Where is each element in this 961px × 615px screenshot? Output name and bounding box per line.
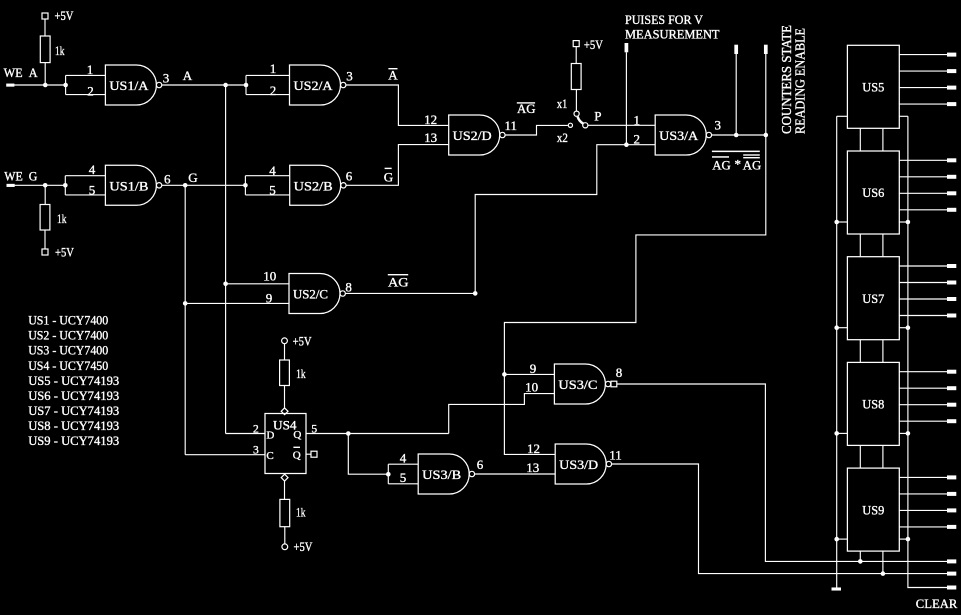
overbar of node Gbar (385, 168, 392, 169)
junction node A branch down (223, 83, 228, 88)
stub US9 to count line 1 (859, 551, 861, 561)
nand gate US3/B (418, 454, 474, 494)
wire +5V square to resistor R3 (575, 47, 577, 64)
borrow link b US8-US9 (882, 445, 884, 468)
junction right bus at US7 (906, 325, 911, 330)
wire Abar: US2/A out to US2/D pin 12 (346, 85, 449, 125)
wire node A vertical bus (225, 85, 227, 434)
counter US5 box (847, 45, 899, 128)
svg-text:CLEAR: CLEAR (916, 596, 958, 611)
wire US3/A output (712, 134, 766, 136)
right pin stub US9 (899, 538, 908, 540)
wire US2/C pin 9 (185, 302, 289, 304)
+5V terminal square (switch pull-up) (573, 41, 579, 47)
svg-text:13: 13 (526, 460, 539, 475)
diamond bubble US4 preset pin (281, 408, 288, 415)
junction count line 1 / US9 stub (858, 559, 863, 564)
junction US2/C out to pin2 net (473, 291, 478, 296)
terminal count line 1 (947, 559, 956, 563)
svg-text:2: 2 (270, 83, 277, 98)
svg-text:1k: 1k (55, 43, 65, 58)
svg-text:G: G (384, 170, 393, 185)
left pin stub US6 (837, 221, 848, 223)
wire Q to US3/C pin 10 staircase (449, 394, 555, 434)
svg-text:US2 - UCY7400: US2 - UCY7400 (28, 328, 108, 343)
left pin stub US9 (837, 538, 848, 540)
svg-text:9: 9 (266, 291, 273, 306)
svg-text:+5V: +5V (293, 333, 312, 348)
svg-text:READING ENABLE: READING ENABLE (794, 28, 809, 134)
svg-text:+5V: +5V (55, 8, 74, 23)
junction PUISES line on pin 2 wire (624, 142, 629, 147)
svg-text:US2/B: US2/B (294, 179, 333, 194)
svg-text:US1/B: US1/B (109, 179, 148, 194)
svg-text:x1: x1 (557, 96, 568, 111)
svg-text:US9 - UCY74193: US9 - UCY74193 (28, 433, 119, 448)
terminal WE A (6, 84, 14, 87)
stub US9 to count line 2 (882, 551, 884, 574)
carry link a US8-US9 (859, 445, 861, 468)
svg-text:11: 11 (505, 118, 518, 133)
svg-text:US3/C: US3/C (558, 377, 597, 392)
parts list US1-US9 (28, 313, 119, 448)
wire US2/C out net to US3/A pin 2 (475, 145, 655, 294)
wire US1/A input connector (65, 75, 67, 94)
svg-text:6: 6 (346, 169, 353, 184)
junction at US3/B input connector (386, 472, 391, 477)
left pin stub US8 (837, 432, 848, 434)
nand gate US2/A (290, 65, 346, 105)
wire US3/A out staircase to US3/C pin 9 and US3/D pin 12 (504, 135, 765, 454)
svg-text:x2: x2 (557, 130, 568, 145)
svg-text:US4 - UCY7450: US4 - UCY7450 (28, 358, 108, 373)
svg-text:PUISES FOR V: PUISES FOR V (625, 12, 704, 27)
junction US3/A out corner (764, 133, 769, 138)
svg-text:2: 2 (87, 83, 94, 98)
svg-text:12: 12 (424, 112, 437, 127)
svg-text:G: G (188, 170, 197, 185)
junction US3/A out to enable terminal 1 (734, 133, 739, 138)
wire US1/A pin 2 (66, 94, 106, 96)
svg-text:1k: 1k (296, 504, 306, 519)
right pin stub US5 (899, 115, 908, 117)
wire switch pole to US3/A pin 1 (588, 124, 655, 126)
terminal counters-enable 2 (764, 45, 768, 54)
junction at US1/A input connector (63, 83, 68, 88)
output wires and terminals of US9 (899, 475, 956, 529)
outer overbar of AG * AG (712, 151, 760, 153)
svg-text:US1/A: US1/A (109, 78, 149, 93)
counter US6 box (847, 151, 899, 234)
wire US2/D out to switch x2 (505, 125, 568, 135)
wire US2/A pin 1 (246, 74, 290, 76)
svg-text:12: 12 (527, 441, 540, 456)
terminal CLEAR (947, 586, 956, 590)
wire US3/C pin 9 (504, 373, 554, 375)
wire US3/B pin 4 (388, 463, 418, 465)
svg-text:1: 1 (633, 112, 640, 127)
svg-text:8: 8 (345, 280, 352, 295)
svg-text:US8: US8 (862, 397, 884, 412)
wire R1 to WE A node (44, 63, 46, 85)
svg-text:US7 - UCY74193: US7 - UCY74193 (28, 403, 119, 418)
junction left bus at US7 (834, 325, 839, 330)
svg-text:3: 3 (253, 444, 259, 456)
carry link a US6-US7 (859, 234, 861, 257)
carry link a US5-US6 (859, 128, 861, 151)
wire US4 clear bubble to resistor R5 (284, 481, 286, 500)
resistor R1 1k (WE A pull-up) (40, 36, 50, 63)
svg-text:5: 5 (89, 183, 96, 198)
svg-text:3: 3 (163, 70, 170, 85)
counter US8 box (847, 362, 899, 445)
nand gate US1/B (105, 165, 161, 205)
svg-text:4: 4 (89, 162, 96, 177)
svg-text:A: A (388, 68, 398, 83)
wire US3/B pin 5 (388, 483, 418, 485)
junction left bus at US9 (834, 537, 839, 542)
wire US2/B input connector (244, 176, 246, 195)
wire PUISES terminal down to US3/A pin 2 net (625, 52, 627, 144)
output wires and terminals of US5 (899, 53, 956, 107)
wire US1/A pin 1 (66, 74, 106, 76)
right pin stub US7 (899, 327, 908, 329)
svg-text:+5V: +5V (55, 245, 74, 260)
wire US2/C pin 10 (226, 283, 289, 285)
svg-text:US3/A: US3/A (659, 128, 699, 143)
output wires and terminals of US8 (899, 370, 956, 424)
svg-text:2: 2 (253, 423, 259, 435)
wire node G vertical bus (184, 185, 186, 454)
left pin stub US5 (837, 115, 848, 117)
wire +5V square to resistor R1 (44, 19, 46, 36)
svg-text:11: 11 (609, 448, 622, 463)
resistor R4 1k (US4 preset pull-up) (280, 360, 290, 386)
svg-text:US7: US7 (862, 291, 884, 306)
junction right bus at US9 (906, 537, 911, 542)
svg-text:6: 6 (164, 171, 171, 186)
switch lever (578, 117, 584, 124)
right pin stub US6 (899, 221, 908, 223)
svg-text:10: 10 (263, 268, 276, 283)
wire US2/B pin 5 (245, 194, 289, 196)
wire US4 Q output (306, 433, 449, 435)
svg-text:8: 8 (616, 365, 623, 380)
svg-text:5: 5 (400, 470, 407, 485)
output wires and terminals of US7 (899, 264, 956, 318)
+5V circle (US4 top pull-up) (282, 338, 288, 344)
right pin stub US8 (899, 432, 908, 434)
nand gate US3/A (655, 115, 711, 155)
wire node A to US4 pin 2 (226, 433, 265, 435)
svg-text:1k: 1k (296, 366, 306, 381)
junction node A to US2/C pin 10 (223, 282, 228, 287)
svg-text:US6: US6 (862, 185, 884, 200)
terminal counters-enable 1 (734, 45, 738, 54)
svg-text:3: 3 (346, 68, 353, 83)
wire R2 to +5V square (44, 230, 46, 249)
nand gate US2/C (289, 274, 345, 314)
junction left bus at US8 (834, 431, 839, 436)
junction WE A / R1 (43, 83, 48, 88)
svg-text:P: P (594, 108, 601, 123)
counter US9 box (847, 468, 899, 551)
double overbar of second AG (743, 154, 760, 155)
svg-text:1: 1 (270, 61, 277, 76)
svg-text:4: 4 (400, 450, 407, 465)
svg-text:6: 6 (477, 457, 484, 472)
ground terminal bar (left bus) (832, 587, 842, 590)
+5V terminal square (below R2) (42, 249, 48, 255)
wire WE G node to resistor R2 (44, 185, 46, 204)
terminal PUISES output (625, 43, 629, 52)
junction pin 9 branch (502, 372, 507, 377)
svg-text:WE A: WE A (4, 65, 39, 80)
wire US3/B input connector (387, 464, 389, 484)
overbar of node Abar (388, 68, 397, 69)
junction node G branch down (183, 183, 188, 188)
resistor R3 (switch pull-up) (571, 64, 581, 90)
svg-text:1k: 1k (57, 211, 67, 226)
resistor R5 1k (US4 clear pull-up) (280, 499, 290, 526)
junction at US2/B input connector (243, 183, 248, 188)
svg-text:US5 - UCY74193: US5 - UCY74193 (28, 373, 119, 388)
overbar of Qbar (293, 447, 300, 448)
wire US2/A pin 2 (246, 94, 290, 96)
svg-text:AG: AG (712, 157, 731, 172)
svg-text:AG: AG (388, 275, 409, 290)
svg-text:US2/D: US2/D (453, 128, 492, 143)
wire node G to US4 pin 3 (185, 454, 265, 456)
output wires and terminals of US6 (899, 158, 956, 212)
svg-text:9: 9 (530, 361, 537, 376)
carry link a US7-US8 (859, 340, 861, 363)
svg-text:+5V: +5V (294, 539, 313, 554)
+5V terminal square (top-left pull-up) (42, 13, 48, 19)
wire WE G input (14, 184, 66, 186)
left bus (counters common) (836, 116, 838, 587)
wire enable terminal 2 line (765, 54, 767, 135)
junction node G to US2/C pin 9 (183, 301, 188, 306)
svg-text:3: 3 (714, 118, 721, 133)
svg-text:US3 - UCY7400: US3 - UCY7400 (28, 343, 108, 358)
svg-text:US8 - UCY74193: US8 - UCY74193 (28, 418, 119, 433)
wire US1/B input connector (64, 176, 66, 195)
svg-text:Q: Q (293, 429, 301, 441)
junction Q branch (346, 431, 351, 436)
nand gate US2/B (290, 165, 346, 205)
nand gate US3/D (555, 444, 611, 484)
svg-text:US2/C: US2/C (293, 287, 328, 302)
wire R5 to +5V circle (bottom) (284, 527, 286, 544)
nand gate US3/C (554, 364, 610, 404)
borrow link b US6-US7 (882, 234, 884, 257)
wire enable terminal 1 line (735, 54, 737, 135)
svg-text:US2/A: US2/A (294, 78, 334, 93)
junction count line 2 / US9 stub (881, 571, 886, 576)
wire +5V to resistor R4 (284, 344, 286, 360)
junction at US2/A input connector (244, 83, 249, 88)
wire US3/C out to counters (count line 1) (617, 384, 947, 561)
svg-text:2: 2 (633, 132, 640, 147)
overbar of AG label (US2/C out) (388, 274, 408, 275)
wire R4 to US4 preset bubble (284, 386, 286, 409)
junction left bus at US6 (834, 220, 839, 225)
nand gate US1/A (105, 65, 161, 105)
svg-text:1: 1 (87, 62, 94, 77)
svg-text:US6 - UCY74193: US6 - UCY74193 (28, 388, 119, 403)
terminal WE G (7, 184, 15, 187)
svg-text:A: A (183, 68, 193, 83)
wire US1/B pin 5 (65, 194, 105, 196)
wire US1/B pin 4 (65, 175, 105, 177)
svg-text:4: 4 (269, 163, 276, 178)
svg-text:MEASUREMENT: MEASUREMENT (625, 27, 720, 42)
switch pole P (583, 123, 588, 128)
wire node A (US1/A out to US2/A in) (162, 84, 246, 86)
junction at US1/B input connector (63, 183, 68, 188)
wire US2/C output AGbar (345, 292, 475, 294)
wire US2/A input connector (245, 75, 247, 94)
svg-text:+5V: +5V (584, 37, 603, 52)
+5V circle (US4 bottom pull-up) (282, 544, 288, 550)
wire Gbar: US2/B out to US2/D pin 13 (346, 145, 449, 186)
wire WE A input (14, 84, 66, 86)
svg-text:US1 - UCY7400: US1 - UCY7400 (28, 313, 108, 328)
wire US4 Qbar stub (306, 453, 311, 455)
svg-text:US3/D: US3/D (559, 457, 598, 472)
resistor R2 1k (WE G pull-down to +5V) (40, 205, 50, 231)
borrow link b US5-US6 (882, 128, 884, 151)
junction right bus at US6 (906, 220, 911, 225)
wire R3 to switch contact x1 (575, 90, 577, 112)
svg-text:D: D (266, 429, 274, 441)
svg-text:10: 10 (525, 379, 538, 394)
switch contact x1 (574, 111, 579, 116)
wire node G (US1/B out to US2/B in) (162, 184, 246, 186)
svg-text:13: 13 (424, 130, 437, 145)
wire US3/B out to US3/D pin 13 (475, 473, 556, 475)
junction right bus at US8 (906, 431, 911, 436)
nand gate US2/D (449, 115, 505, 155)
wire US3/D out to counters (count line 2) (612, 464, 947, 574)
svg-text:AG: AG (743, 157, 762, 172)
svg-text:US3/B: US3/B (422, 467, 461, 482)
switch contact x2 (568, 123, 572, 127)
square terminal on US3/C out (611, 381, 617, 387)
wire US2/B pin 4 (245, 175, 289, 177)
terminal count line 2 (947, 572, 956, 576)
overbar of first AG (712, 156, 729, 158)
svg-text:US5: US5 (862, 80, 884, 95)
left pin stub US7 (837, 327, 848, 329)
flip-flop US4 box (265, 414, 306, 474)
diamond bubble US4 clear pin (281, 474, 288, 481)
svg-text:US9: US9 (862, 502, 884, 517)
square terminal on US4 Qbar (311, 451, 317, 457)
counter US7 box (847, 257, 899, 340)
borrow link b US7-US8 (882, 340, 884, 363)
wire Q branch down to US3/B input (348, 434, 388, 475)
right bus (counters CLEAR) (908, 116, 947, 587)
svg-text:WE G: WE G (4, 168, 37, 183)
overbar of AG label (US2/D out) (517, 102, 535, 103)
svg-text:*: * (735, 156, 742, 171)
svg-text:C: C (266, 450, 273, 462)
junction WE G / R2 (43, 183, 48, 188)
svg-text:5: 5 (269, 182, 276, 197)
svg-text:Q: Q (293, 450, 301, 462)
